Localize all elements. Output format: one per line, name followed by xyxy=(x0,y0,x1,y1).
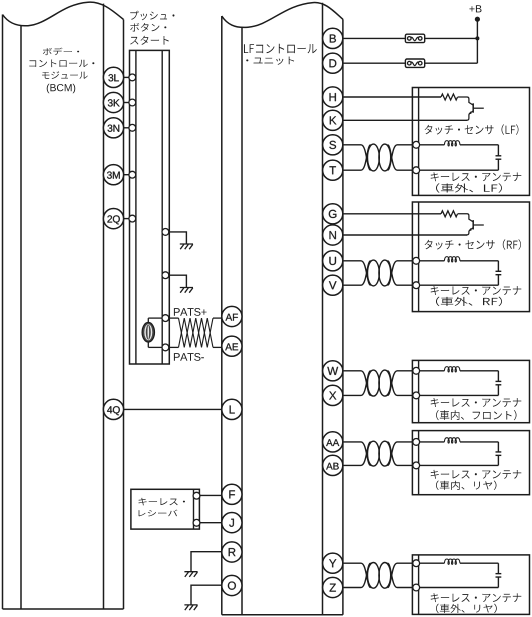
pin label 3K xyxy=(108,99,120,106)
resistor (touch sensor LF) xyxy=(441,94,458,100)
pin Z (LF unit) xyxy=(323,577,343,597)
pin T (LF unit) xyxy=(323,160,343,180)
antenna coil/cap loop (outside LF) xyxy=(416,144,444,146)
terminal on push-button-start for 3K xyxy=(129,99,136,106)
pin R (LF unit) xyxy=(222,542,242,562)
wire PATS- xyxy=(148,346,162,348)
box: keyless antenna (inside, front) xyxy=(412,360,529,422)
resistor (touch sensor RF) xyxy=(441,211,458,217)
pin D (LF unit) xyxy=(323,53,343,73)
pin AB (LF unit) xyxy=(323,455,343,475)
box: keyless antenna (outside, rear) xyxy=(412,555,529,615)
wire G into box2 xyxy=(343,213,441,215)
terminal push-button-start ground 2 xyxy=(162,272,169,279)
pin label B xyxy=(330,35,336,43)
pin 4Q (BCM) xyxy=(103,399,123,419)
push-button-start box xyxy=(130,50,170,364)
keyless receiver label line1 xyxy=(139,498,185,506)
pin 3N (BCM) xyxy=(103,118,123,138)
pin label 2Q xyxy=(107,215,119,224)
wire to ground 2 xyxy=(169,275,187,287)
terminal on push-button-start for 3L xyxy=(129,74,136,81)
pin label Y xyxy=(329,559,336,567)
pin label L xyxy=(230,406,235,414)
label PATS- xyxy=(174,353,204,361)
label PATS+ xyxy=(174,308,207,316)
terminal on push-button-start for 2Q xyxy=(129,215,136,222)
pin label U xyxy=(329,257,336,265)
label keyless antenna rear-in xyxy=(431,470,522,479)
pin label R xyxy=(229,548,236,556)
ground (push-button-start 1) xyxy=(180,244,193,249)
pin label H xyxy=(330,93,336,101)
pin 3M (BCM) xyxy=(103,165,123,185)
pin label K xyxy=(330,116,337,124)
LF unit label line2 xyxy=(246,57,294,65)
wire receiver to F xyxy=(200,494,222,496)
pin L (LF unit) xyxy=(222,399,242,419)
terminal PATS+ xyxy=(162,315,169,322)
pin G (LF unit) xyxy=(323,204,343,224)
wire receiver to J xyxy=(200,522,222,524)
BCM label line1 xyxy=(43,48,79,56)
twisted pair Y/Z xyxy=(343,563,371,587)
+B terminal dot xyxy=(475,17,480,22)
keyless receiver box xyxy=(131,489,200,529)
wire to ground 1 xyxy=(169,232,187,244)
wire BCM 3M to push-button-start xyxy=(124,174,130,176)
ground (O) xyxy=(184,605,197,610)
terminal X on box3 xyxy=(413,392,420,399)
pin H (LF unit) xyxy=(323,87,343,107)
pin U (LF unit) xyxy=(323,251,343,271)
wire H into box1 xyxy=(343,96,441,98)
transistor (touch sensor LF) xyxy=(458,97,474,105)
terminal Y on box5 xyxy=(413,560,420,567)
terminal keyless receiver 1 xyxy=(193,492,200,499)
wire BCM 3N to push-button-start xyxy=(124,127,130,129)
pin label 4Q xyxy=(107,406,120,415)
pin label V xyxy=(329,281,337,289)
label touch sensor RF xyxy=(425,239,521,250)
pin S (LF unit) xyxy=(323,135,343,155)
pin O (LF unit) xyxy=(222,575,242,595)
pin B (LF unit) xyxy=(323,28,343,48)
box: touch sensor RF / keyless antenna (outside RF) xyxy=(412,202,529,312)
push-button-start label line2 xyxy=(130,23,166,32)
pin AA (LF unit) xyxy=(323,432,343,452)
terminal PATS- xyxy=(162,344,169,351)
wire BCM 3L to push-button-start xyxy=(124,76,130,78)
pin AE (LF unit) xyxy=(222,336,242,356)
wire fuse1 to +B junction xyxy=(425,37,478,39)
fuse 1 xyxy=(405,34,424,42)
+B riser wire xyxy=(476,19,478,63)
pin K (LF unit) xyxy=(323,110,343,130)
pin label Z xyxy=(330,584,336,592)
antenna coil/cap loop (inside rear) xyxy=(416,441,444,443)
pin X (LF unit) xyxy=(323,385,343,405)
pin label X xyxy=(329,392,336,400)
label +B xyxy=(469,5,481,12)
box: keyless antenna (inside, rear) xyxy=(412,431,529,495)
wire BCM 3K to push-button-start xyxy=(124,102,130,104)
wire BCM 2Q to push-button-start xyxy=(124,218,130,220)
pin label O xyxy=(228,582,236,590)
antenna coil/cap loop (outside RF) xyxy=(416,260,444,262)
twisted pair U/V xyxy=(343,261,371,285)
antenna coil/cap loop (inside front) xyxy=(416,370,444,372)
ground (push-button-start 2) xyxy=(180,288,193,293)
label (outside RF) xyxy=(436,297,502,306)
label (outside LF) xyxy=(436,183,502,192)
wire fuse2 to +B riser xyxy=(425,62,478,64)
twisted pair PATS to AF/AE xyxy=(169,317,179,319)
BCM label line2 xyxy=(29,60,94,68)
wire N into box2 xyxy=(343,234,467,236)
label touch sensor LF xyxy=(425,124,519,135)
LF control unit band (middle harness) xyxy=(222,3,343,28)
terminal Z on box5 xyxy=(413,584,420,591)
label keyless antenna rear-out xyxy=(431,593,522,602)
label keyless antenna RF xyxy=(431,286,522,295)
box: touch sensor LF / keyless antenna (outside LF) xyxy=(412,88,529,196)
wire D to fuse2 xyxy=(343,62,406,64)
pin label T xyxy=(329,166,336,174)
push-button-start label line1 xyxy=(130,11,174,20)
push-button-start label line3 xyxy=(130,36,169,45)
label keyless antenna LF xyxy=(431,172,522,181)
wire PATS+ xyxy=(148,317,162,319)
pin label S xyxy=(329,141,336,149)
pin label W xyxy=(327,367,338,375)
antenna coil/cap loop (outside rear) xyxy=(416,562,444,564)
label keyless antenna front xyxy=(431,398,522,407)
pin W (LF unit) xyxy=(323,361,343,381)
terminal W on box3 xyxy=(413,367,420,374)
LF unit label line1 xyxy=(244,44,317,54)
terminal U on box2 xyxy=(413,257,420,264)
transistor (touch sensor RF) xyxy=(458,214,474,222)
pin label 3M xyxy=(107,172,120,179)
pin label N xyxy=(330,231,336,239)
pin J (LF unit) xyxy=(222,513,242,533)
terminal T on box1 xyxy=(413,167,420,174)
twisted pair AA/AB xyxy=(343,442,371,466)
terminal V on box2 xyxy=(413,282,420,289)
label (outside, rear) xyxy=(436,604,497,613)
terminal push-button-start ground 1 xyxy=(162,229,169,236)
wire O to ground xyxy=(191,585,222,604)
terminal AB on box4 xyxy=(413,462,420,469)
pin label AB xyxy=(326,463,339,470)
ground (R) xyxy=(184,572,197,577)
pin label F xyxy=(229,490,235,498)
wire B to fuse xyxy=(343,37,406,39)
pin AF (LF unit) xyxy=(222,306,242,326)
junction dot on B wire xyxy=(475,36,479,40)
pin label AA xyxy=(326,439,339,446)
pin V (LF unit) xyxy=(323,275,343,295)
terminal on push-button-start for 3N xyxy=(129,124,136,131)
twisted pair S/T xyxy=(343,145,371,170)
pin 2Q (BCM) xyxy=(103,209,123,229)
label (inside, rear) xyxy=(436,481,497,490)
wire R to ground xyxy=(191,552,222,572)
pin label AF xyxy=(226,314,238,321)
wire K into box1 xyxy=(343,119,467,121)
pin 3L (BCM) xyxy=(103,67,123,87)
pin label J xyxy=(229,519,234,527)
terminal keyless receiver 2 xyxy=(193,519,200,526)
pin label 3N xyxy=(108,125,120,132)
fuse 2 xyxy=(405,59,424,67)
label (inside, front) xyxy=(436,410,516,420)
twisted pair W/X xyxy=(343,371,371,396)
BCM label line4 xyxy=(47,84,76,94)
pin F (LF unit) xyxy=(222,484,242,504)
pin Y (LF unit) xyxy=(323,553,343,573)
pin N (LF unit) xyxy=(323,225,343,245)
pin label G xyxy=(329,210,337,218)
BCM label line3 xyxy=(42,71,88,79)
wire BCM 4Q to LF unit L xyxy=(124,408,222,410)
BCM module band (left harness) xyxy=(3,2,124,26)
terminal S on box1 xyxy=(413,141,420,148)
pin label D xyxy=(330,59,337,67)
pin label 3L xyxy=(108,74,118,81)
terminal AA on box4 xyxy=(413,439,420,446)
pin 3K (BCM) xyxy=(103,92,123,112)
pin label AE xyxy=(225,343,238,350)
keyless receiver label line2 xyxy=(139,510,178,517)
immobilizer coil (PATS antenna) xyxy=(147,318,149,347)
terminal on push-button-start for 3M xyxy=(129,171,136,178)
